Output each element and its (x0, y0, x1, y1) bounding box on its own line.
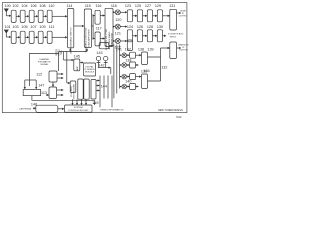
wire (85, 99, 87, 105)
IF filter 130 (157, 30, 162, 42)
svg-text:138: 138 (125, 59, 131, 63)
svg-text:111: 111 (49, 25, 55, 29)
svg-text:121: 121 (115, 32, 121, 36)
wire (133, 35, 138, 37)
amplifier 119 (105, 8, 113, 46)
LO bus wire (116, 45, 118, 94)
LO bus wire (119, 45, 121, 89)
wire (94, 100, 96, 105)
svg-text:NEW TUNER DESIGN: NEW TUNER DESIGN (158, 109, 183, 112)
svg-text:OUTPUT: OUTPUT (179, 50, 188, 52)
svg-text:118: 118 (111, 4, 117, 8)
filter 117 (95, 32, 100, 46)
svg-text:100: 100 (5, 4, 11, 8)
svg-text:103: 103 (12, 25, 18, 29)
wire (86, 49, 88, 52)
svg-text:107: 107 (30, 25, 36, 29)
filter 116 (95, 10, 100, 24)
oscillator 143b (104, 56, 108, 62)
wire (133, 15, 138, 17)
wire antenna out (33, 107, 36, 109)
wire (57, 77, 63, 79)
svg-text:106: 106 (30, 4, 36, 8)
mixer 139 (122, 74, 127, 79)
svg-text:123: 123 (125, 4, 131, 8)
wire (72, 99, 74, 105)
wire splitter (92, 16, 94, 39)
svg-text:104: 104 (21, 4, 27, 8)
amplifier 131 (170, 9, 177, 30)
svg-text:124: 124 (127, 25, 133, 29)
svg-text:109: 109 (39, 25, 45, 29)
channel estimator text (38, 58, 51, 66)
reference block 142 (99, 43, 109, 49)
bus wire (111, 76, 113, 108)
wide IF output text (179, 11, 188, 18)
synthesizer Rb (84, 79, 89, 99)
wire (136, 54, 142, 56)
wire (67, 82, 70, 84)
LO bus wire (113, 45, 115, 99)
svg-text:5/10: 5/10 (176, 115, 182, 119)
wire (25, 36, 29, 38)
wire channel estimator (29, 53, 58, 86)
wire (120, 40, 127, 42)
wire (25, 15, 29, 17)
svg-text:ANTENNA BAND SWITCH: ANTENNA BAND SWITCH (70, 27, 73, 54)
frame border (2, 3, 187, 113)
mixer 138 (122, 63, 127, 68)
mixer 120 (115, 24, 120, 29)
mixer 121 (115, 39, 120, 44)
filter F4 (130, 84, 136, 90)
svg-text:101: 101 (5, 25, 11, 29)
svg-text:MODULE: MODULE (85, 72, 95, 74)
wire (177, 12, 181, 14)
svg-text:SEL: SEL (60, 49, 63, 54)
switch 114 (68, 9, 74, 48)
filter 111 (47, 31, 52, 43)
wire (6, 15, 11, 17)
wire (113, 11, 115, 13)
wire (43, 36, 47, 38)
system controller text (68, 107, 89, 112)
wire (6, 36, 11, 38)
oscillator 143a (96, 56, 100, 62)
wire (177, 47, 181, 49)
wire (143, 15, 148, 17)
amplifier 119 text (105, 28, 113, 50)
wire (63, 52, 65, 61)
svg-text:137: 137 (125, 48, 131, 52)
wire (100, 15, 104, 17)
register 144a text (71, 84, 76, 100)
wire (113, 40, 115, 42)
wire (76, 99, 78, 105)
svg-text:128: 128 (147, 25, 153, 29)
synthesizer Ra (78, 79, 83, 99)
wire (148, 48, 168, 81)
svg-text:◄ WIDE IF AGC: ◄ WIDE IF AGC (168, 32, 184, 35)
memory block 147 (23, 90, 40, 96)
wire (136, 76, 142, 78)
wire (32, 96, 95, 101)
wire (163, 35, 167, 37)
filter F1 (130, 52, 136, 58)
wire (52, 36, 67, 38)
svg-text:136: 136 (141, 70, 147, 74)
wire (120, 76, 122, 78)
filter 136 (142, 74, 148, 89)
wire (153, 35, 158, 37)
wire (52, 82, 54, 87)
svg-text:GAIN AMPLIFIER: GAIN AMPLIFIER (87, 29, 90, 47)
svg-text:149: 149 (92, 101, 98, 105)
svg-text:117: 117 (96, 27, 102, 31)
IF filter 124 (127, 30, 132, 42)
IF filter 129 (157, 10, 162, 22)
antenna 100 (4, 9, 8, 16)
filter 106 (29, 10, 34, 22)
bus wire (99, 76, 101, 108)
svg-text:147: 147 (38, 84, 44, 88)
wire (34, 15, 38, 17)
svg-text:SYNTHESIZER: SYNTHESIZER (74, 84, 76, 100)
wire (57, 73, 63, 75)
wire (35, 80, 37, 89)
mixer 137 (122, 53, 127, 58)
wire (69, 49, 71, 52)
svg-text:141: 141 (116, 48, 122, 52)
svg-text:113: 113 (41, 91, 47, 95)
filter 103 (11, 31, 16, 43)
wire (110, 68, 112, 74)
wire (16, 36, 20, 38)
svg-text:CHANNEL SPLITTER: CHANNEL SPLITTER (105, 28, 108, 50)
filter F3 (130, 74, 136, 80)
wire (127, 86, 130, 88)
wire (120, 26, 127, 28)
amplifier 145 (74, 59, 80, 71)
synthesizer Rc (91, 80, 96, 100)
filter 107 (29, 31, 34, 43)
wire (120, 64, 122, 66)
wire (96, 80, 99, 82)
svg-text:115: 115 (85, 4, 91, 8)
wire (120, 11, 127, 13)
wire (93, 38, 95, 40)
svg-text:110: 110 (49, 4, 55, 8)
svg-text:AND WIDE BAND: AND WIDE BAND (108, 31, 111, 49)
filter 105 (20, 31, 25, 43)
svg-text:142: 142 (98, 63, 104, 67)
amplifier 133 (170, 42, 177, 59)
svg-text:132: 132 (161, 66, 167, 70)
wire (96, 85, 99, 87)
svg-text:AMPLIFIER: AMPLIFIER (111, 32, 114, 44)
wide IF AGC text (168, 32, 184, 38)
wire (109, 45, 113, 47)
wire (100, 38, 104, 40)
wire (167, 47, 170, 49)
svg-text:140: 140 (125, 80, 131, 84)
svg-text:139: 139 (147, 48, 153, 52)
wire (113, 26, 115, 28)
svg-text:INPUT: INPUT (170, 36, 177, 38)
wire (163, 15, 170, 17)
control label text (55, 48, 63, 55)
IF filter 126 (137, 30, 142, 42)
wire (81, 99, 83, 105)
svg-text:129: 129 (155, 4, 161, 8)
wire (24, 80, 26, 89)
wire (99, 63, 106, 68)
svg-text:126: 126 (137, 25, 143, 29)
amplifier 115 text (85, 27, 91, 52)
wire (120, 54, 122, 56)
wire (25, 79, 36, 81)
filter F2 (130, 62, 136, 68)
svg-text:AMP: AMP (76, 66, 79, 71)
IF filter 125 (137, 10, 142, 22)
interface block 148 (36, 105, 58, 112)
svg-text:131: 131 (169, 4, 175, 8)
filter 104 (20, 10, 25, 22)
svg-text:112: 112 (36, 73, 42, 77)
IF filter 123 (127, 10, 132, 22)
svg-text:114: 114 (67, 4, 73, 8)
wire (136, 64, 139, 66)
wire (127, 76, 130, 78)
wire (57, 94, 64, 96)
svg-text:145: 145 (74, 55, 80, 59)
svg-text:OUTPUT: OUTPUT (179, 16, 188, 18)
filter 102 (11, 10, 16, 22)
filter 109 (38, 31, 43, 43)
wire (127, 54, 130, 56)
svg-text:CONTROLLER UNIT: CONTROLLER UNIT (68, 110, 89, 112)
wire (120, 86, 122, 88)
wire (153, 15, 158, 17)
svg-text:108: 108 (39, 4, 45, 8)
wire (143, 35, 148, 37)
demod block 146 (84, 63, 96, 76)
wire (80, 62, 84, 64)
register block 144a (70, 81, 76, 93)
svg-text:144: 144 (101, 84, 107, 88)
svg-text:116: 116 (96, 4, 102, 8)
svg-text:138: 138 (138, 48, 144, 52)
wire (16, 15, 20, 17)
controller 112 (49, 71, 57, 82)
IF filter 128 (147, 30, 152, 42)
wire (93, 15, 95, 17)
wire (74, 25, 84, 27)
wire (64, 59, 74, 61)
bus wire (103, 76, 105, 99)
antenna 101 (4, 30, 8, 37)
system controller unit (65, 105, 93, 112)
narrow IF output text (179, 44, 190, 52)
wire (43, 15, 47, 17)
wire (58, 108, 64, 110)
wire (46, 94, 49, 96)
svg-text:125: 125 (135, 4, 141, 8)
svg-text:130: 130 (157, 25, 163, 29)
wire (127, 64, 130, 66)
mixer 140 (122, 84, 127, 89)
controller 113 (49, 87, 57, 99)
wire (52, 15, 67, 17)
wire (66, 52, 68, 84)
svg-text:TUNING INFORMATION: TUNING INFORMATION (100, 108, 124, 111)
bus wire (107, 76, 109, 99)
IF filter 123b (127, 40, 132, 51)
svg-text:120: 120 (115, 18, 121, 22)
svg-text:105: 105 (21, 25, 27, 29)
svg-text:WIDEBAND LOW NOISE: WIDEBAND LOW NOISE (85, 27, 88, 52)
amplifier 115 (84, 9, 91, 48)
svg-text:102: 102 (12, 4, 18, 8)
svg-text:143: 143 (96, 51, 102, 55)
IF filter 127 (147, 10, 152, 22)
wire (96, 90, 99, 92)
svg-text:148: 148 (31, 103, 37, 107)
filter 108 (38, 10, 43, 22)
svg-text:SIGNAL: SIGNAL (40, 63, 49, 66)
svg-text:127: 127 (145, 4, 151, 8)
filter 110 (47, 10, 52, 22)
control wire (59, 52, 87, 72)
mixer 118 (115, 10, 120, 15)
filter 135 (142, 52, 148, 65)
svg-text:◂ ANTENNA: ◂ ANTENNA (19, 107, 31, 110)
wire (57, 89, 64, 91)
wire (136, 86, 139, 88)
wire (34, 36, 38, 38)
demod 146 text (84, 66, 95, 74)
wire (106, 67, 111, 69)
